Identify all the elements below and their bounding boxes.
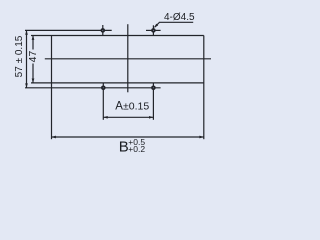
top holes centreline (right segment through hole 2) [146,29,161,31]
B dimension line [52,136,204,138]
hole 3 (bottom left, Ø4.5) [101,86,106,91]
svg-text:A±0.15: A±0.15 [115,101,149,113]
bottom holes centreline (extension for 57 dim) [25,87,161,89]
47 dimension line upper segment [32,36,34,50]
arrowhead 57 top [25,30,28,34]
svg-text:4-Ø4.5: 4-Ø4.5 [164,12,195,23]
top holes centreline (extension for 57 dim, left segment) [25,29,112,31]
leader underline for 4-Ø4.5 [159,21,193,23]
arrowhead leader to hole 2 [153,24,158,29]
vertical centreline [127,24,129,92]
hole 4 (bottom right, Ø4.5) [151,86,156,91]
hole 4 vertical centre mark + A dim extension line [152,83,154,120]
leader line for 4-Ø4.5 [155,23,160,28]
hole 1 (top left, Ø4.5) [101,28,106,33]
cutout left edge with extension down to B dim line [51,36,53,140]
horizontal centreline [45,58,211,60]
hole 1 vertical centre mark [102,25,104,36]
hole 2 vertical centre mark [152,25,154,35]
hole 2 (top right, Ø4.5) [151,28,156,33]
svg-text:57 ± 0.15: 57 ± 0.15 [14,35,25,77]
A dimension line [103,116,153,118]
hole 3 vertical centre mark + A dim extension line [102,83,104,120]
47 dimension line lower segment [32,64,34,83]
arrowhead B left [52,136,56,139]
cutout bottom edge [31,82,204,84]
arrowhead 47 top [32,36,35,40]
cutout right edge with extension down to B dim line [203,36,205,140]
arrowhead A left [103,116,107,119]
svg-text:47: 47 [27,51,39,63]
arrowhead B right [199,136,203,139]
arrowhead 57 bottom [25,83,28,87]
arrowhead A right [149,116,153,119]
57 dimension line [26,30,28,87]
svg-text:+0.2: +0.2 [128,144,145,154]
cutout top edge [31,35,204,37]
arrowhead 47 bottom [32,79,35,83]
